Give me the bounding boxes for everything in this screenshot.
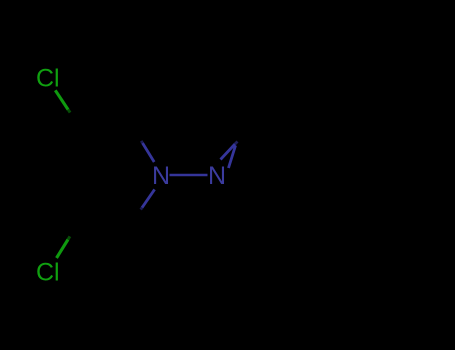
bond C-Cl green half (bottom) (57, 240, 69, 259)
bond CH2-N1 blue half (lower) (142, 189, 155, 207)
bond CH2-N1 dark blue tip (upper) (141, 141, 142, 143)
phenyl ring C3H5 x2 skeleton (black on black, invisible in source) (68, 108, 405, 240)
bond CH2-N1 blue half (upper) (143, 143, 155, 162)
svg-text:Cl: Cl (36, 65, 60, 93)
bond C-Cl dark green tip (top) (68, 110, 70, 113)
svg-text:N: N (152, 162, 170, 190)
double bond dark transition tip (235, 142, 238, 145)
bond CH2-N1 dark blue tip (lower) (141, 208, 142, 210)
svg-text:N: N (208, 162, 226, 190)
bond C-Cl dark green tip (bottom) (68, 236, 70, 239)
bond C-Cl green half (top) (55, 90, 68, 109)
bond N-N (170, 174, 208, 177)
svg-text:Cl: Cl (36, 259, 60, 287)
double bond N2=CH blue half, inner line (229, 146, 236, 169)
double bond N2=CH blue half, outer line (221, 144, 236, 160)
